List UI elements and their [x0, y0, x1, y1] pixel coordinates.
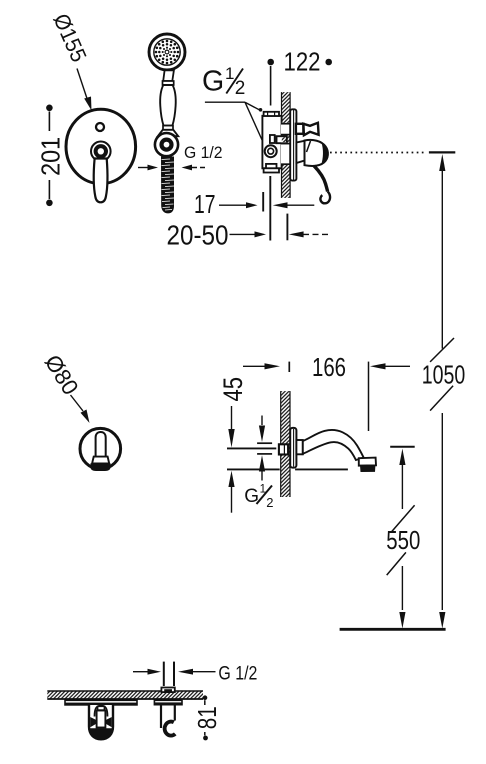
hand shower handle (baluster)	[160, 85, 176, 126]
svg-text:81: 81	[192, 706, 222, 729]
svg-text:2: 2	[266, 495, 273, 510]
svg-text:G: G	[202, 66, 224, 98]
svg-text:17: 17	[194, 191, 216, 219]
lever hub outer	[91, 142, 111, 162]
diverter knob (side)	[296, 123, 319, 135]
mixer trim plate (front)	[66, 109, 136, 184]
pipe stub in wall	[279, 444, 288, 454]
svg-text:1050: 1050	[422, 361, 466, 389]
spout tube (front projection)	[96, 432, 106, 457]
dimension 45 (vertical)	[218, 377, 348, 513]
dimension 550	[386, 447, 420, 629]
hand shower neck	[163, 70, 174, 81]
leader arrow from Ø155 to trim plate	[77, 69, 92, 111]
dimension 17	[194, 176, 314, 241]
svg-text:2: 2	[235, 78, 246, 99]
label G 1/2 (big, with leader to valve inlets)	[202, 64, 267, 150]
svg-text:166: 166	[312, 354, 346, 382]
dimension 20-50	[167, 214, 332, 251]
concealed valve body (side)	[262, 112, 281, 173]
dimension 201 (vertical, left)	[38, 105, 66, 207]
wall (side view, hatched)	[282, 92, 291, 198]
leader arrow to spout circle	[71, 395, 90, 423]
swivel ball	[155, 133, 178, 156]
neck collar	[163, 81, 174, 85]
spout base	[296, 440, 302, 454]
svg-text:45: 45	[218, 377, 248, 402]
svg-text:G 1/2: G 1/2	[184, 144, 223, 162]
spout escutcheon (front)	[80, 428, 121, 469]
dimension 166	[243, 354, 410, 431]
dimension 1050	[422, 152, 466, 628]
inlet port circle	[265, 145, 277, 157]
escutcheon plate (side)	[290, 109, 296, 180]
label G1/2 (spout)	[244, 484, 273, 511]
handle end collar	[163, 126, 173, 130]
svg-text:201: 201	[38, 137, 66, 176]
wall for spout (hatched)	[281, 391, 290, 497]
shower hose (ribbed)	[161, 157, 174, 214]
small screw hole	[96, 123, 104, 131]
aerator (front)	[92, 457, 109, 464]
spout escutcheon (side)	[290, 428, 296, 468]
label Ø155	[48, 10, 91, 66]
label Ø80	[40, 350, 83, 399]
lever handle (side)	[296, 140, 330, 203]
hand shower holder: cup	[89, 705, 113, 739]
svg-text:20-50: 20-50	[167, 220, 229, 251]
svg-text:122: 122	[284, 49, 321, 77]
wall hook: J-hook	[161, 705, 175, 736]
hose callout arrows	[138, 165, 206, 171]
hand shower holder: wall plate	[65, 700, 137, 705]
dimension G 1/2 (bottom)	[133, 662, 257, 686]
dimension 81 (vertical)	[192, 695, 222, 740]
wall hook: plate	[154, 700, 182, 705]
spray face dots	[155, 40, 180, 65]
G1/2 stub callout (vertical arrows)	[257, 416, 272, 481]
conical nut	[158, 130, 178, 136]
mounting wall (bottom section, hatched)	[47, 691, 203, 699]
lever handle (front)	[94, 159, 108, 203]
hand shower head	[149, 34, 185, 70]
valve through-wall connectors	[277, 123, 291, 165]
wall hook: nut above wall	[161, 688, 174, 693]
aerator (side)	[359, 458, 376, 466]
dimension 122	[267, 49, 332, 106]
spout tube (side)	[303, 430, 364, 460]
svg-text:1: 1	[225, 64, 234, 83]
svg-text:550: 550	[386, 527, 420, 555]
centerline (dotted) from valve axis	[330, 152, 425, 154]
svg-text:G 1/2: G 1/2	[218, 663, 257, 685]
floor line	[340, 628, 446, 631]
lever hub inner ring	[96, 146, 106, 156]
